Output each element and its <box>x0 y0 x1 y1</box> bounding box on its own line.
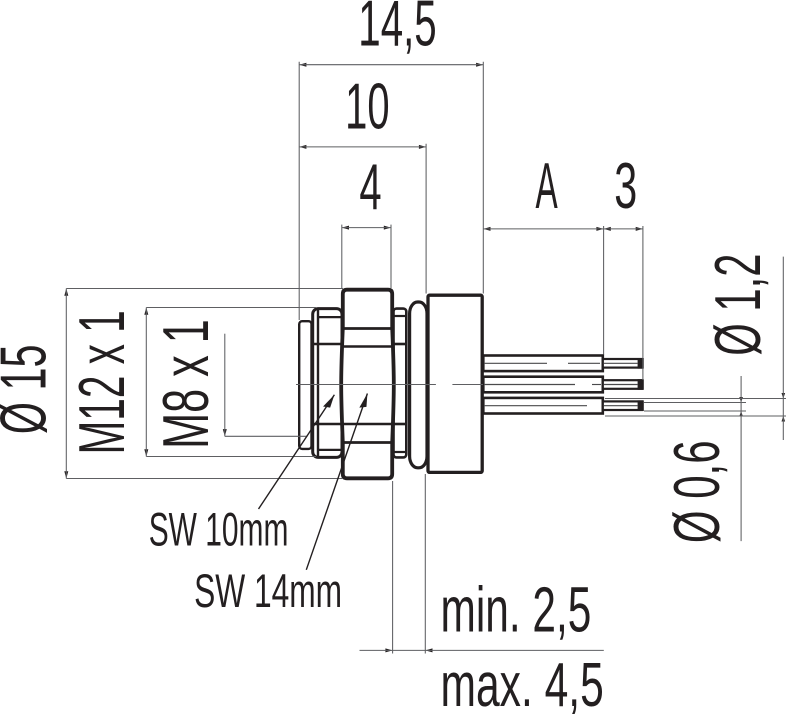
svg-text:min. 2,5: min. 2,5 <box>441 574 592 646</box>
svg-text:14,5: 14,5 <box>358 0 436 60</box>
svg-text:4: 4 <box>359 151 381 223</box>
svg-text:3: 3 <box>614 150 637 223</box>
svg-text:Ø 15: Ø 15 <box>0 344 60 434</box>
svg-text:M12 x 1: M12 x 1 <box>66 310 138 454</box>
svg-text:Ø 0,6: Ø 0,6 <box>660 440 734 543</box>
svg-text:10: 10 <box>345 71 389 143</box>
svg-text:max. 4,5: max. 4,5 <box>441 651 604 720</box>
svg-text:Ø 1,2: Ø 1,2 <box>702 254 775 356</box>
svg-text:SW 14mm: SW 14mm <box>194 566 342 618</box>
svg-text:SW 10mm: SW 10mm <box>149 504 289 556</box>
svg-text:A: A <box>536 149 559 222</box>
svg-text:M8 x 1: M8 x 1 <box>149 319 222 449</box>
